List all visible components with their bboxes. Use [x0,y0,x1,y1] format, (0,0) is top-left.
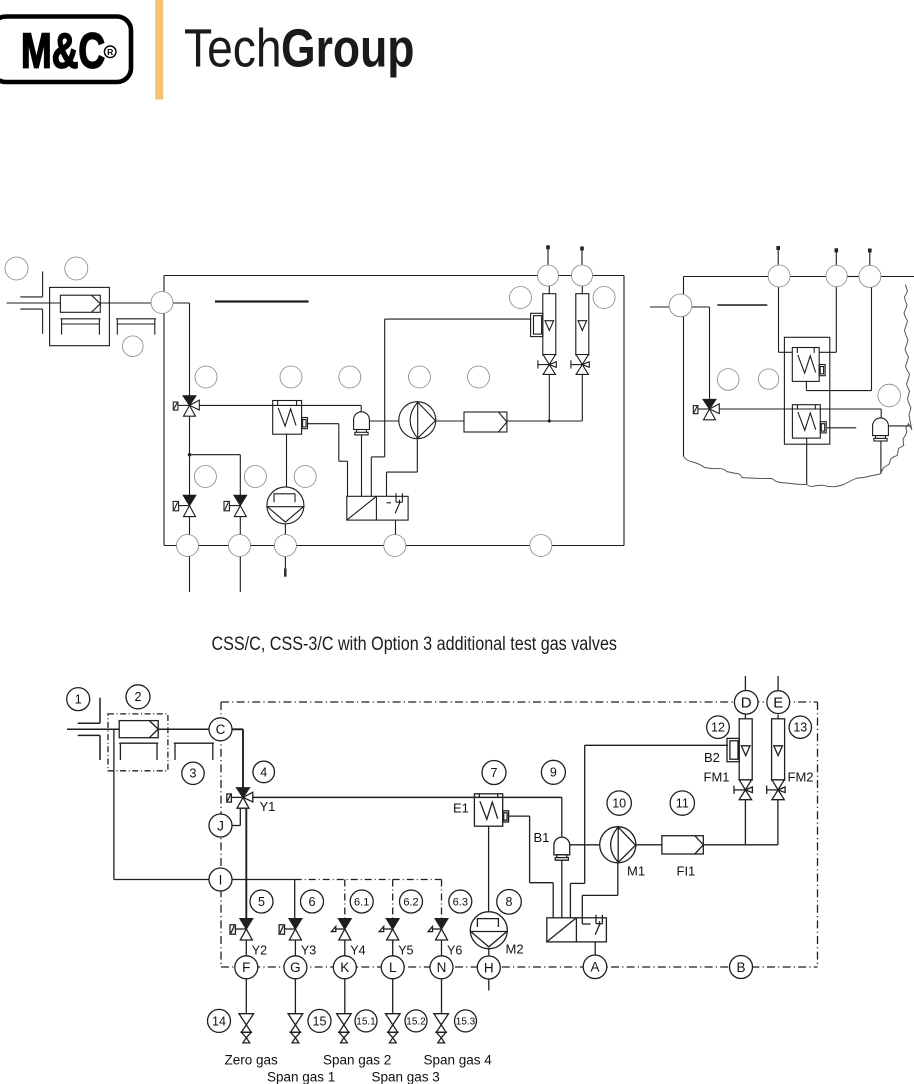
pos 15.2 [405,1010,427,1032]
svg-text:Y1: Y1 [260,799,276,814]
solenoid valve Y3 position (top schematic) [224,495,247,516]
svg-text:FI1: FI1 [677,864,696,879]
test gas branch wire (top schematic) [188,416,241,496]
wire E1 tab to manifold [509,816,554,918]
svg-text:B: B [736,960,745,975]
svg-text:M1: M1 [627,864,645,879]
wire valve to node F (top schematic) [189,517,191,535]
svg-text:14: 14 [212,1014,226,1028]
empty indicator circles mid row (top schematic) [195,366,490,388]
svg-text:1: 1 [75,693,82,707]
empty indicator circle 3 (top schematic) [123,336,144,357]
probe enclosure box (top schematic) [50,287,110,345]
wire sample pipe into probe (top schematic) [7,302,61,304]
test gas drop below node G [294,979,296,1014]
sample pipe into probe [67,728,119,730]
wire probe to node C (top schematic) [101,302,151,304]
pos 12 [707,716,730,739]
test gas drop below node F [245,979,247,1014]
wire M1 return to manifold [582,863,618,924]
svg-text:R: R [107,47,114,57]
wire M2 to node H [488,949,490,956]
node F [235,956,258,979]
probe filter cartridge (top schematic) [60,295,100,312]
pressure line B2 to manifold [570,745,728,918]
wire B1 to pump M1 [570,844,600,846]
svg-text:B2: B2 [704,750,720,765]
svg-text:2: 2 [135,690,142,704]
wire filter to flow meters (top schematic) [507,374,582,422]
node K [333,956,356,979]
node G [284,956,307,979]
orange divider bar [155,0,163,100]
solenoid valve Y4 [331,919,351,940]
wire B1 to manifold [561,860,563,918]
solenoid valve Y6 [428,919,448,940]
svg-text:A: A [590,960,599,975]
svg-text:L: L [389,960,397,975]
svg-text:6.2: 6.2 [403,896,418,908]
test gas inlet drop below node F (top schematic) [189,557,191,593]
cooler assembly box (torn schematic) [784,337,829,444]
vent drop below node H (top schematic) [284,557,287,577]
flow meter tube FM2 [772,719,785,780]
pos 15 [308,1009,331,1032]
svg-text:15.1: 15.1 [356,1016,376,1027]
wire circle2 to upper cooler right (torn schematic) [819,287,836,352]
svg-text:Span gas 4: Span gas 4 [424,1053,493,1068]
registered trademark symbol [104,46,116,58]
svg-text:15: 15 [313,1014,327,1028]
pos 5 [250,890,273,913]
wire heat exchanger down to pump M2 (top schematic) [286,434,288,487]
test gas drop below node K [344,979,346,1014]
vent below node H [488,979,490,991]
node circles top row (torn schematic) [768,265,881,287]
wire valve to heat exchanger (top schematic) [199,404,361,406]
svg-text:M2: M2 [506,942,524,957]
solenoid valve Y2 position (top schematic) [173,495,196,516]
svg-text:Y5: Y5 [398,944,413,958]
node I [209,868,232,891]
svg-text:Span gas 1: Span gas 1 [267,1070,335,1084]
heat exchanger upper (torn schematic) [792,348,825,382]
3-way solenoid valve Y1 [227,788,253,808]
needle valve under FM1 (top schematic) [538,355,556,375]
svg-text:CSS/C, CSS-3/C with Option 3 a: CSS/C, CSS-3/C with Option 3 additional … [212,634,618,655]
empty indicator circle 1 (top schematic) [5,257,28,280]
wire down to condensate vessel B1 [561,797,563,837]
svg-text:8: 8 [506,895,513,909]
probe bypass return wire down to node I [113,729,115,879]
svg-text:6.3: 6.3 [453,896,468,908]
optional test gas dash-dot header [295,880,442,919]
condensate vessel B1 [554,837,570,860]
test gas shut-off valves below L [386,1014,401,1043]
wire valve line to condensate vessel (torn schematic) [880,409,882,418]
svg-text:4: 4 [260,765,267,779]
svg-text:9: 9 [550,766,557,780]
empty indicator circles (torn schematic) [717,369,900,407]
sample pump M1 [600,827,636,863]
pressure sensor line from B2 to manifold (top schematic) [371,319,531,496]
valve outlet wire across coolers (torn schematic) [719,408,881,410]
pump M2 inlet wire (top schematic) [284,523,286,535]
enclosure border (top schematic) [164,276,624,546]
svg-text:N: N [437,960,447,975]
wire manifold to node A (top schematic) [395,520,397,534]
node circles D E (top schematic) [538,265,593,286]
manifold distributor block [547,915,607,942]
solenoid valve Y2 [230,919,253,940]
node C [209,718,232,741]
heat exchanger (top schematic E1) [273,401,308,435]
heat exchanger E1 [474,794,508,826]
node B [730,956,753,979]
flow meter tube FM2 (top schematic) [576,294,589,355]
wire FM2 to node E [777,715,779,719]
3-way solenoid valve (top schematic Y1) [173,396,199,416]
test gas shut-off valves below F [239,1014,254,1043]
node E [767,691,790,714]
sample bypass pump M2 [470,912,507,949]
vent stubs with end markers (torn schematic) [776,246,871,265]
svg-text:6: 6 [309,895,316,909]
wire Y1 down to test gas header [245,808,247,918]
probe mounting bracket left (top schematic) [60,319,100,335]
wire condensate vessel to manifold (top schematic) [361,434,363,496]
svg-text:K: K [340,960,349,975]
pump M2 inlet wire [488,911,490,913]
svg-text:B1: B1 [534,830,550,845]
pos 10 [607,791,631,815]
wire into node left (torn schematic) [650,306,669,308]
sensor box B2 [727,738,739,761]
wire probe to node C [158,728,209,730]
svg-text:I: I [219,872,223,887]
svg-text:E1: E1 [453,801,469,816]
flow meter tube FM1 [739,719,752,780]
wire M1 to filter FI1 [636,844,662,846]
pos 11 [670,791,694,815]
wire E1 to pump M2 [488,826,490,911]
empty indicator circle 2 (top schematic) [65,257,88,280]
redacted label bar (torn schematic) [717,304,767,306]
test gas inlet drop below node G (top schematic) [239,557,241,593]
wire upper cooler outlet to circle3 (torn schematic) [806,288,871,391]
pos 6.2 [400,890,423,913]
test gas shut-off valves below G [288,1014,303,1043]
condensate vessel (top schematic B1) [354,412,370,435]
wire pump return to manifold (top schematic) [387,439,418,503]
wire node J to Y1 [232,808,240,825]
svg-text:10: 10 [612,797,626,811]
svg-text:FM2: FM2 [788,770,814,785]
svg-text:Span gas 2: Span gas 2 [323,1053,391,1068]
svg-text:15.2: 15.2 [406,1016,426,1027]
pos 14 [208,1009,231,1032]
sample pump (top schematic M1) [399,402,436,439]
svg-text:Group: Group [281,19,415,79]
flow meter tube FM1 (top schematic) [543,294,556,355]
condensate vessel outlet right (torn schematic) [889,425,910,427]
pos 2 [126,685,150,709]
vent stub above node E (top schematic) [580,247,584,266]
test gas drop below node L [392,979,394,1014]
wire condensate vessel to pump (top schematic) [369,420,399,422]
wire pump to filter (top schematic) [436,420,464,422]
M&C company logo rounded frame [0,17,131,83]
wire node I to Y3 branch [232,880,295,919]
torn paper edge [684,285,912,487]
node circle C (top schematic) [151,292,173,314]
condensate vessel drop (torn schematic) [880,441,882,475]
wire node C to valve Y1 [232,729,243,788]
test gas drop below node N [441,979,443,1014]
test gas shut-off valves below N [434,1014,449,1043]
svg-text:3: 3 [190,767,197,781]
svg-text:7: 7 [491,766,498,780]
3-way solenoid valve (torn schematic) [693,399,719,419]
redacted label bar (top schematic) [215,300,309,302]
svg-text:15.3: 15.3 [456,1016,476,1027]
svg-text:H: H [484,960,494,975]
pos 4 [253,761,275,783]
vent stub above node E [777,676,779,690]
probe filter cartridge [119,721,158,738]
svg-text:Y2: Y2 [252,944,267,958]
node L [381,956,404,979]
node N [430,956,453,979]
node H [477,956,500,979]
TechGroup wordmark [184,19,415,79]
svg-text:C: C [216,722,226,737]
svg-text:Y6: Y6 [447,944,462,958]
probe bracket right [174,743,214,760]
wire node to valve (torn schematic) [692,307,710,399]
svg-text:D: D [741,695,752,712]
vent stub above node D (top schematic) [546,245,550,265]
sensor box B2 (top schematic) [531,313,543,336]
probe enclosure dash-dot box [108,714,168,771]
svg-text:Zero gas: Zero gas [225,1053,279,1068]
svg-text:F: F [242,960,250,975]
svg-text:G: G [290,960,301,975]
dash-dot enclosure border (main schematic) [221,702,818,967]
heat exchanger lower (torn schematic) [792,405,826,438]
node circles bottom row (top schematic) [177,535,552,557]
pos 8 [497,890,522,915]
needle valve under FM2 [767,780,785,800]
wire valve to node G (top schematic) [239,517,241,535]
pos 13 [789,716,811,738]
wire Y1 to heat exchanger E1 [253,796,562,798]
probe bracket left [119,743,158,760]
solenoid valve Y3 [279,919,302,940]
svg-text:Span gas 3: Span gas 3 [372,1070,440,1084]
left drop wire (torn schematic) [683,277,685,457]
wire FM1 to node D (top schematic) [548,286,550,294]
svg-text:12: 12 [711,721,725,735]
wire circle1 to upper cooler (torn schematic) [779,287,793,352]
probe flange wall (top schematic) [20,271,42,333]
wire heat exchanger tab to manifold (top schematic) [307,424,348,497]
svg-text:E: E [773,695,783,712]
wire manifold to node A [594,942,596,955]
test gas shut-off valves below K [337,1014,352,1043]
wire FM1 to node D [744,715,746,719]
pos 9 [541,760,565,784]
wire manifold to node A drop [594,954,596,956]
wire FI1 to flow meter valves [703,800,778,845]
pos 15.3 [455,1010,477,1032]
wire lower cooler tab right (torn schematic) [827,427,856,429]
probe flange wall [78,698,100,760]
manifold distributor block (top schematic) [347,493,408,520]
pos 3 [182,762,204,784]
sample bypass pump (top schematic M2) [267,487,304,524]
wire bypass to node I [114,879,209,881]
svg-text:11: 11 [676,797,689,811]
vent stub above node D [744,676,746,690]
pos 1 [67,688,90,711]
wire FM2 to node E (top schematic) [581,286,583,294]
node D [734,691,758,715]
needle valve under FM2 (top schematic) [571,355,589,375]
svg-text:13: 13 [793,721,807,735]
pos 15.1 [355,1010,377,1032]
svg-text:6.1: 6.1 [354,896,369,908]
condensate vessel (torn schematic) [873,418,889,441]
svg-text:Y3: Y3 [301,944,316,958]
pos 7 [482,761,506,785]
wire lower cooler condensate drop (torn schematic) [806,438,808,484]
svg-text:5: 5 [258,895,265,909]
pos 6 [301,890,324,913]
wires valves to bottom nodes [246,940,441,956]
solenoid valve Y5 [379,919,399,940]
wire down to condensate vessel (top schematic) [360,405,362,411]
svg-text:Tech: Tech [184,19,282,79]
outlet filter (top schematic FI1) [464,412,507,432]
wire node C to valve (top schematic) [173,303,190,396]
svg-text:FM1: FM1 [704,770,730,785]
header pipe wire (torn schematic) [684,276,914,278]
node circle left (torn schematic) [669,294,692,317]
node J [209,814,232,837]
pos 6.3 [449,890,472,913]
probe mounting bracket right (top schematic) [116,319,156,335]
svg-text:M&C: M&C [21,23,105,78]
empty indicator circles valve row (top schematic) [194,466,316,488]
pos 6.1 [350,890,373,913]
empty indicator circles flowmeter row (top schematic) [510,287,616,309]
svg-text:Y4: Y4 [350,944,365,958]
svg-text:J: J [217,818,224,833]
node A [583,955,607,979]
needle valve under FM1 [734,780,752,800]
outlet filter FI1 [662,836,703,854]
